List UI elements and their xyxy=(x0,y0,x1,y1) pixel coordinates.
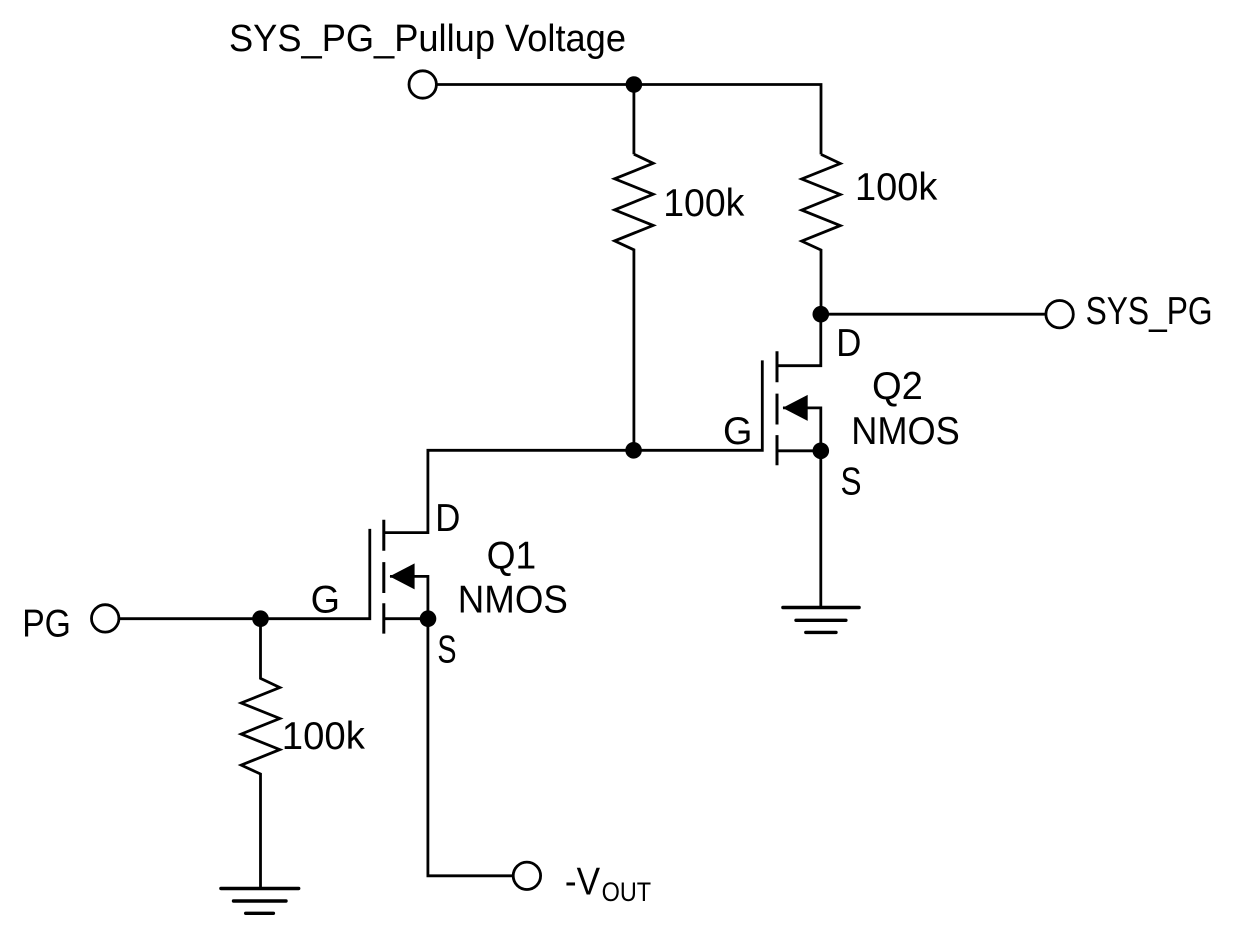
svg-text:G: G xyxy=(311,578,340,621)
svg-text:Q2: Q2 xyxy=(872,365,923,408)
svg-text:NMOS: NMOS xyxy=(458,579,568,622)
svg-text:SYS_PG_Pullup Voltage: SYS_PG_Pullup Voltage xyxy=(229,18,626,60)
svg-text:-V: -V xyxy=(565,860,600,903)
svg-text:S: S xyxy=(841,460,862,503)
svg-text:D: D xyxy=(836,322,861,365)
svg-text:S: S xyxy=(437,628,456,671)
svg-text:D: D xyxy=(435,497,460,540)
svg-text:100k: 100k xyxy=(663,182,745,225)
svg-text:100k: 100k xyxy=(855,166,938,209)
svg-text:SYS_PG: SYS_PG xyxy=(1086,290,1213,333)
svg-text:Q1: Q1 xyxy=(487,534,537,577)
svg-text:NMOS: NMOS xyxy=(851,410,960,453)
svg-text:PG: PG xyxy=(22,602,71,645)
svg-text:OUT: OUT xyxy=(602,877,652,907)
svg-text:100k: 100k xyxy=(282,715,366,758)
svg-text:G: G xyxy=(723,410,752,453)
